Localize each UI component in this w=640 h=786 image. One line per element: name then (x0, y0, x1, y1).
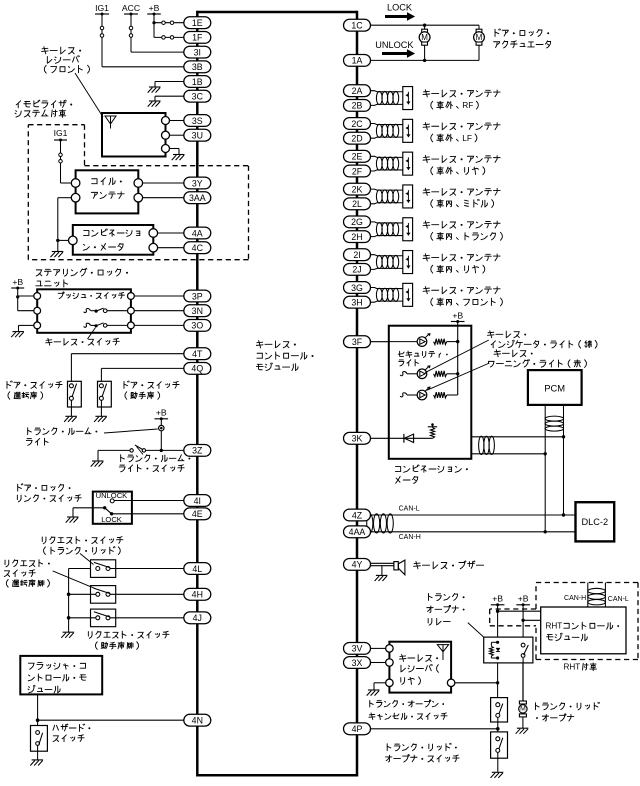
svg-text:3N: 3N (192, 306, 203, 316)
svg-text:3C: 3C (192, 92, 204, 102)
svg-text:1C: 1C (351, 21, 363, 31)
svg-text:2K: 2K (352, 184, 363, 194)
svg-text:RF: RF (462, 100, 473, 110)
svg-text:+B: +B (149, 3, 160, 13)
svg-text:IG1: IG1 (54, 128, 68, 138)
svg-text:4Q: 4Q (191, 364, 203, 374)
svg-text:4C: 4C (192, 243, 204, 253)
svg-text:4L: 4L (192, 564, 202, 574)
svg-text:RHT: RHT (564, 662, 581, 671)
svg-text:4P: 4P (352, 724, 363, 734)
svg-text:2I: 2I (353, 250, 360, 260)
svg-text:M: M (421, 33, 428, 42)
svg-text:ACC: ACC (122, 3, 140, 13)
svg-text:DLC-2: DLC-2 (582, 517, 609, 527)
svg-text:2L: 2L (352, 199, 362, 209)
svg-text:4AA: 4AA (349, 527, 366, 537)
svg-text:2B: 2B (352, 101, 363, 111)
svg-text:1A: 1A (352, 56, 363, 66)
svg-text:3U: 3U (192, 131, 203, 141)
svg-text:3O: 3O (191, 321, 203, 331)
svg-text:3Z: 3Z (192, 446, 203, 456)
svg-text:UNLOCK: UNLOCK (375, 40, 414, 50)
svg-text:2H: 2H (351, 232, 362, 242)
svg-text:1E: 1E (192, 18, 203, 28)
svg-text:2C: 2C (351, 119, 363, 129)
svg-text:PCM: PCM (544, 382, 565, 393)
svg-text:3I: 3I (194, 47, 201, 57)
svg-text:1F: 1F (192, 33, 203, 43)
svg-text:1B: 1B (192, 77, 203, 87)
svg-text:2A: 2A (352, 86, 363, 96)
svg-text:4T: 4T (192, 349, 203, 359)
svg-text:LOCK: LOCK (387, 3, 413, 13)
svg-text:RHT: RHT (546, 621, 563, 630)
svg-text:3Y: 3Y (192, 178, 203, 188)
svg-text:3F: 3F (352, 337, 363, 347)
svg-text:+B: +B (156, 408, 167, 418)
svg-text:3K: 3K (352, 434, 363, 444)
svg-text:+B: +B (452, 310, 463, 320)
svg-text:3AA: 3AA (189, 193, 206, 203)
svg-text:4J: 4J (193, 613, 202, 623)
svg-text:4N: 4N (192, 716, 203, 726)
svg-text:2E: 2E (352, 152, 363, 162)
svg-text:CAN-H: CAN-H (399, 534, 421, 541)
svg-text:LOCK: LOCK (101, 515, 122, 524)
svg-text:4A: 4A (192, 228, 203, 238)
svg-text:M: M (520, 706, 526, 713)
svg-text:4H: 4H (192, 590, 203, 600)
svg-text:3G: 3G (351, 283, 363, 293)
svg-text:3B: 3B (192, 62, 203, 72)
svg-text:LF: LF (462, 133, 472, 143)
svg-text:3X: 3X (352, 658, 363, 668)
svg-text:+B: +B (12, 277, 23, 287)
svg-text:CAN-L: CAN-L (399, 506, 420, 513)
svg-text:2G: 2G (351, 217, 363, 227)
svg-text:4E: 4E (192, 509, 203, 519)
svg-text:M: M (476, 33, 483, 42)
svg-text:2F: 2F (352, 166, 363, 176)
svg-text:IG1: IG1 (95, 3, 109, 13)
svg-text:+B: +B (492, 594, 503, 604)
svg-text:4Y: 4Y (352, 560, 363, 570)
svg-text:2J: 2J (352, 265, 361, 275)
svg-text:3P: 3P (192, 291, 203, 301)
svg-text:3V: 3V (352, 644, 363, 654)
svg-text:CAN-L: CAN-L (608, 596, 629, 603)
svg-text:4I: 4I (194, 496, 201, 506)
svg-text:+B: +B (518, 594, 529, 604)
svg-text:3H: 3H (351, 298, 362, 308)
svg-text:CAN-H: CAN-H (564, 595, 586, 602)
svg-text:3S: 3S (192, 116, 203, 126)
svg-text:4Z: 4Z (352, 510, 363, 520)
svg-text:2D: 2D (351, 134, 362, 144)
